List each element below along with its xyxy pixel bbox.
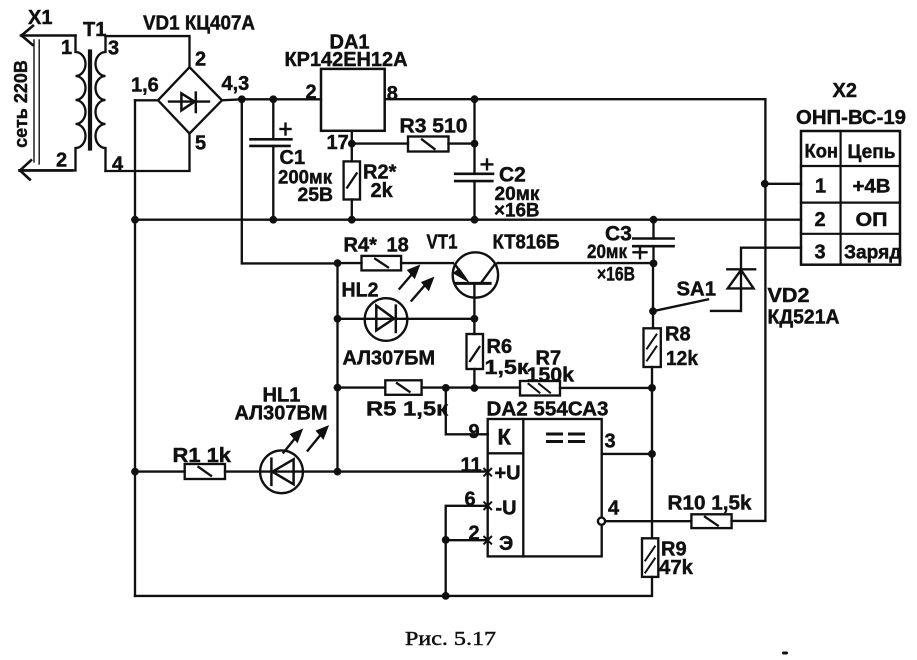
wire feed from top rail down to R4 row: [242, 99, 338, 263]
svg-text:R3 510: R3 510: [400, 116, 468, 138]
junction top rail / C1: [269, 95, 277, 103]
svg-text:КТ816Б: КТ816Б: [493, 232, 560, 254]
svg-text:R8: R8: [665, 324, 691, 346]
svg-text:17: 17: [327, 132, 349, 154]
svg-text:DA2 554СА3: DA2 554СА3: [487, 399, 609, 421]
svg-text:18: 18: [387, 235, 409, 257]
svg-text:ОП: ОП: [856, 210, 888, 231]
wire pin3 node down to R9: [651, 454, 653, 538]
wire bottom rail: [135, 595, 651, 597]
regulator DA1 box: [321, 69, 385, 131]
DA2 comparator symbol: [548, 434, 584, 442]
wire T1 pin4 to bridge bottom: [106, 134, 190, 172]
junction R3 / C2 node: [471, 140, 479, 148]
junction ОП rail / left rail: [131, 216, 139, 224]
bridge internal diode: [169, 100, 209, 102]
resistor R6: [473, 319, 475, 334]
C2 plus sign: [482, 160, 493, 170]
DA2 pin6 wire: [446, 506, 488, 596]
wire left rail: [134, 100, 136, 596]
wire bridge left vertex to left rail: [135, 99, 158, 101]
DA2 pin4 output circle: [598, 518, 605, 525]
resistor R1: [135, 470, 185, 472]
svg-text:2: 2: [815, 209, 826, 231]
junction HL1 row / left rail: [131, 468, 139, 476]
svg-text:12k: 12k: [666, 348, 699, 370]
junction VT1 base / HL2 cathode / R6: [471, 315, 479, 323]
wire ОП rail: [135, 219, 801, 221]
X1 arrow top: [21, 26, 76, 45]
svg-text:Кон: Кон: [805, 142, 839, 163]
DA1 pin labels: [306, 82, 398, 155]
bridge rectifier VD1 label: [143, 13, 255, 35]
svg-text:С1: С1: [280, 147, 306, 169]
junction DA1 pin17 / R2 / R3: [348, 140, 356, 148]
wire top rail left: [222, 99, 321, 100]
resistor R4: [338, 262, 362, 264]
svg-text:150k: 150k: [527, 365, 575, 387]
T1 secondary winding: [96, 36, 106, 171]
svg-text:1,5к: 1,5к: [485, 357, 530, 379]
diode VD2: [741, 248, 801, 311]
junction HL1 row / R5 branch: [334, 468, 342, 476]
junction R6 bottom / R5 row: [471, 384, 479, 392]
T1 primary winding: [20, 36, 86, 171]
junction DA2 pin6 / pin2: [442, 536, 450, 544]
junction ОП rail / R2 bottom: [348, 216, 356, 224]
svg-text:R5 1,5к: R5 1,5к: [366, 399, 449, 421]
ink speck: [782, 652, 788, 655]
svg-text:+4В: +4В: [853, 177, 891, 198]
C3 labels: [587, 223, 635, 286]
svg-text:25В: 25В: [298, 185, 334, 206]
svg-text:20мк: 20мк: [587, 242, 627, 263]
DA2 pin2 wire: [446, 539, 488, 541]
wire HL2/R5 vertical branch: [336, 263, 338, 472]
svg-text:47k: 47k: [659, 557, 694, 579]
comparator DA2 box: [488, 419, 602, 556]
T1 core: [88, 52, 92, 149]
resistor R3: [352, 142, 408, 144]
T1 pin numbers: [56, 37, 124, 176]
svg-text:5: 5: [195, 133, 206, 155]
junction bottom rail / DA2 pin2 branch: [442, 592, 450, 600]
svg-text:Т1: Т1: [83, 19, 106, 41]
svg-text:ОНП-ВС-19: ОНП-ВС-19: [796, 107, 906, 129]
DA2 pin3 wire: [602, 453, 652, 455]
resistor R7: [520, 381, 560, 396]
regulator DA1 labels: [285, 32, 408, 72]
DA2 cell labels: [495, 463, 521, 556]
svg-text:2k: 2k: [371, 180, 394, 202]
junction VT1 collector / C3 bottom: [650, 260, 658, 268]
bridge pin labels: [131, 49, 249, 155]
DA2 pin4 wire: [605, 520, 691, 522]
svg-text:1,6: 1,6: [131, 75, 159, 97]
junction top rail / R4 feed: [238, 95, 246, 103]
resistor R5: [338, 386, 386, 388]
wire C3 node down to SA1/R8: [652, 263, 654, 328]
capacitor C3: [652, 220, 654, 239]
DA2 К cell text: [498, 425, 512, 450]
svg-text:2: 2: [195, 49, 206, 71]
svg-text:2: 2: [306, 82, 317, 104]
caption Рис. 5.17: [405, 628, 496, 650]
svg-text:VD2: VD2: [768, 285, 810, 307]
C3 plus sign: [634, 247, 647, 259]
svg-text:8: 8: [387, 83, 398, 105]
junction R7 right / R8 bottom: [648, 384, 656, 392]
svg-text:×16В: ×16В: [597, 265, 635, 286]
svg-text:1: 1: [61, 37, 72, 59]
svg-text:X2: X2: [833, 80, 857, 102]
junction ОП rail / C1 bottom: [269, 216, 277, 224]
svg-text:4: 4: [112, 154, 124, 176]
svg-text:3: 3: [605, 431, 616, 453]
junction ОП rail / C3 top: [650, 216, 658, 224]
wire top rail right with right-side drop to R10: [385, 99, 766, 521]
svg-text:4: 4: [608, 498, 620, 520]
svg-text:К: К: [498, 425, 512, 450]
connector X2 table: [801, 131, 900, 265]
resistor R9: [642, 538, 658, 577]
wire VT1 collector to C3 node: [498, 262, 654, 264]
junction top rail / C2-R3 branch: [471, 95, 479, 103]
svg-text:Заряд: Заряд: [844, 243, 902, 264]
svg-text:3: 3: [108, 38, 119, 60]
svg-text:HL2: HL2: [342, 280, 379, 302]
svg-text:АЛ307БМ: АЛ307БМ: [343, 348, 436, 370]
junction HL2 anode branch: [334, 315, 342, 323]
svg-text:×16В: ×16В: [494, 201, 540, 222]
transistor VT1 labels: [427, 232, 560, 254]
HL2 emission arrows: [400, 272, 428, 301]
LED HL2: [365, 298, 408, 341]
resistor R10: [691, 514, 731, 528]
svg-text:9: 9: [469, 421, 480, 443]
DA2 pin9 wire: [446, 388, 488, 434]
junction +4V line / X2 pin1: [761, 180, 769, 188]
DA2 pin input x-marks: [484, 469, 491, 544]
svg-text:11: 11: [461, 455, 482, 477]
svg-text:сеть 220В: сеть 220В: [11, 60, 31, 148]
svg-text:1: 1: [815, 176, 826, 198]
svg-text:VT1: VT1: [427, 232, 458, 254]
connector X2 labels: [796, 80, 906, 129]
svg-text:R1 1k: R1 1k: [173, 445, 232, 467]
svg-text:Рис. 5.17: Рис. 5.17: [405, 628, 496, 650]
resistor R2: [351, 144, 353, 162]
junction SA1 pole: [649, 307, 657, 315]
svg-text:2: 2: [56, 150, 67, 172]
wire T1 pin3 to bridge top: [106, 36, 190, 67]
LED HL2 labels: [342, 280, 436, 370]
C1 value labels: [278, 147, 333, 206]
svg-text:+U: +U: [495, 463, 521, 485]
resistor R8: [644, 328, 661, 367]
svg-text:КД521А: КД521А: [768, 307, 840, 329]
junction DA2 pin3 / R9 branch: [648, 450, 656, 458]
comparator DA2 label: [487, 399, 609, 421]
capacitor C2: [473, 99, 475, 174]
svg-text:VD1 КЦ407А: VD1 КЦ407А: [143, 13, 255, 35]
LED HL1 labels: [235, 385, 328, 425]
svg-text:4,3: 4,3: [222, 73, 250, 95]
transformer T1 label: [83, 19, 106, 41]
VT1 base lead: [473, 285, 475, 319]
junction R4 row / HL2 branch: [334, 259, 342, 267]
DA2 pin number labels: [461, 421, 621, 545]
transistor VT1: [453, 252, 498, 297]
junction R5 row / DA2 pin9 branch: [442, 384, 450, 392]
switch SA1: [653, 299, 708, 311]
svg-text:АЛ307ВМ: АЛ307ВМ: [235, 403, 328, 425]
junction ОП rail / C2 bottom: [471, 216, 479, 224]
junction R5 left: [334, 384, 342, 392]
HL1 emission arrows: [284, 433, 323, 453]
svg-text:3: 3: [815, 242, 826, 264]
net label сеть 220В: [11, 60, 31, 148]
X1 connector double line: [34, 40, 39, 164]
svg-text:R6: R6: [487, 336, 513, 358]
wire HL2 row: [338, 318, 365, 320]
X1 arrow bottom: [20, 160, 73, 179]
capacitor C1: [272, 99, 274, 139]
svg-text:R10 1,5k: R10 1,5k: [668, 493, 753, 515]
svg-text:Цепь: Цепь: [848, 142, 896, 163]
svg-text:Э: Э: [499, 533, 513, 555]
DA1 pin17 lead: [351, 131, 353, 144]
svg-text:-U: -U: [496, 498, 517, 520]
X2 table text: [805, 142, 902, 264]
C2 value labels: [494, 164, 540, 222]
svg-text:R4*: R4*: [344, 235, 378, 257]
connector X1 label: [28, 7, 52, 29]
svg-text:SA1: SA1: [677, 279, 717, 301]
C1 plus sign: [281, 124, 291, 135]
wire HL1 to DA2 pin11: [303, 470, 488, 472]
LED HL1: [260, 450, 303, 493]
wire X2 pin1 branch: [765, 183, 801, 185]
bridge VD1 diamond: [158, 67, 222, 133]
svg-text:6: 6: [465, 489, 476, 511]
